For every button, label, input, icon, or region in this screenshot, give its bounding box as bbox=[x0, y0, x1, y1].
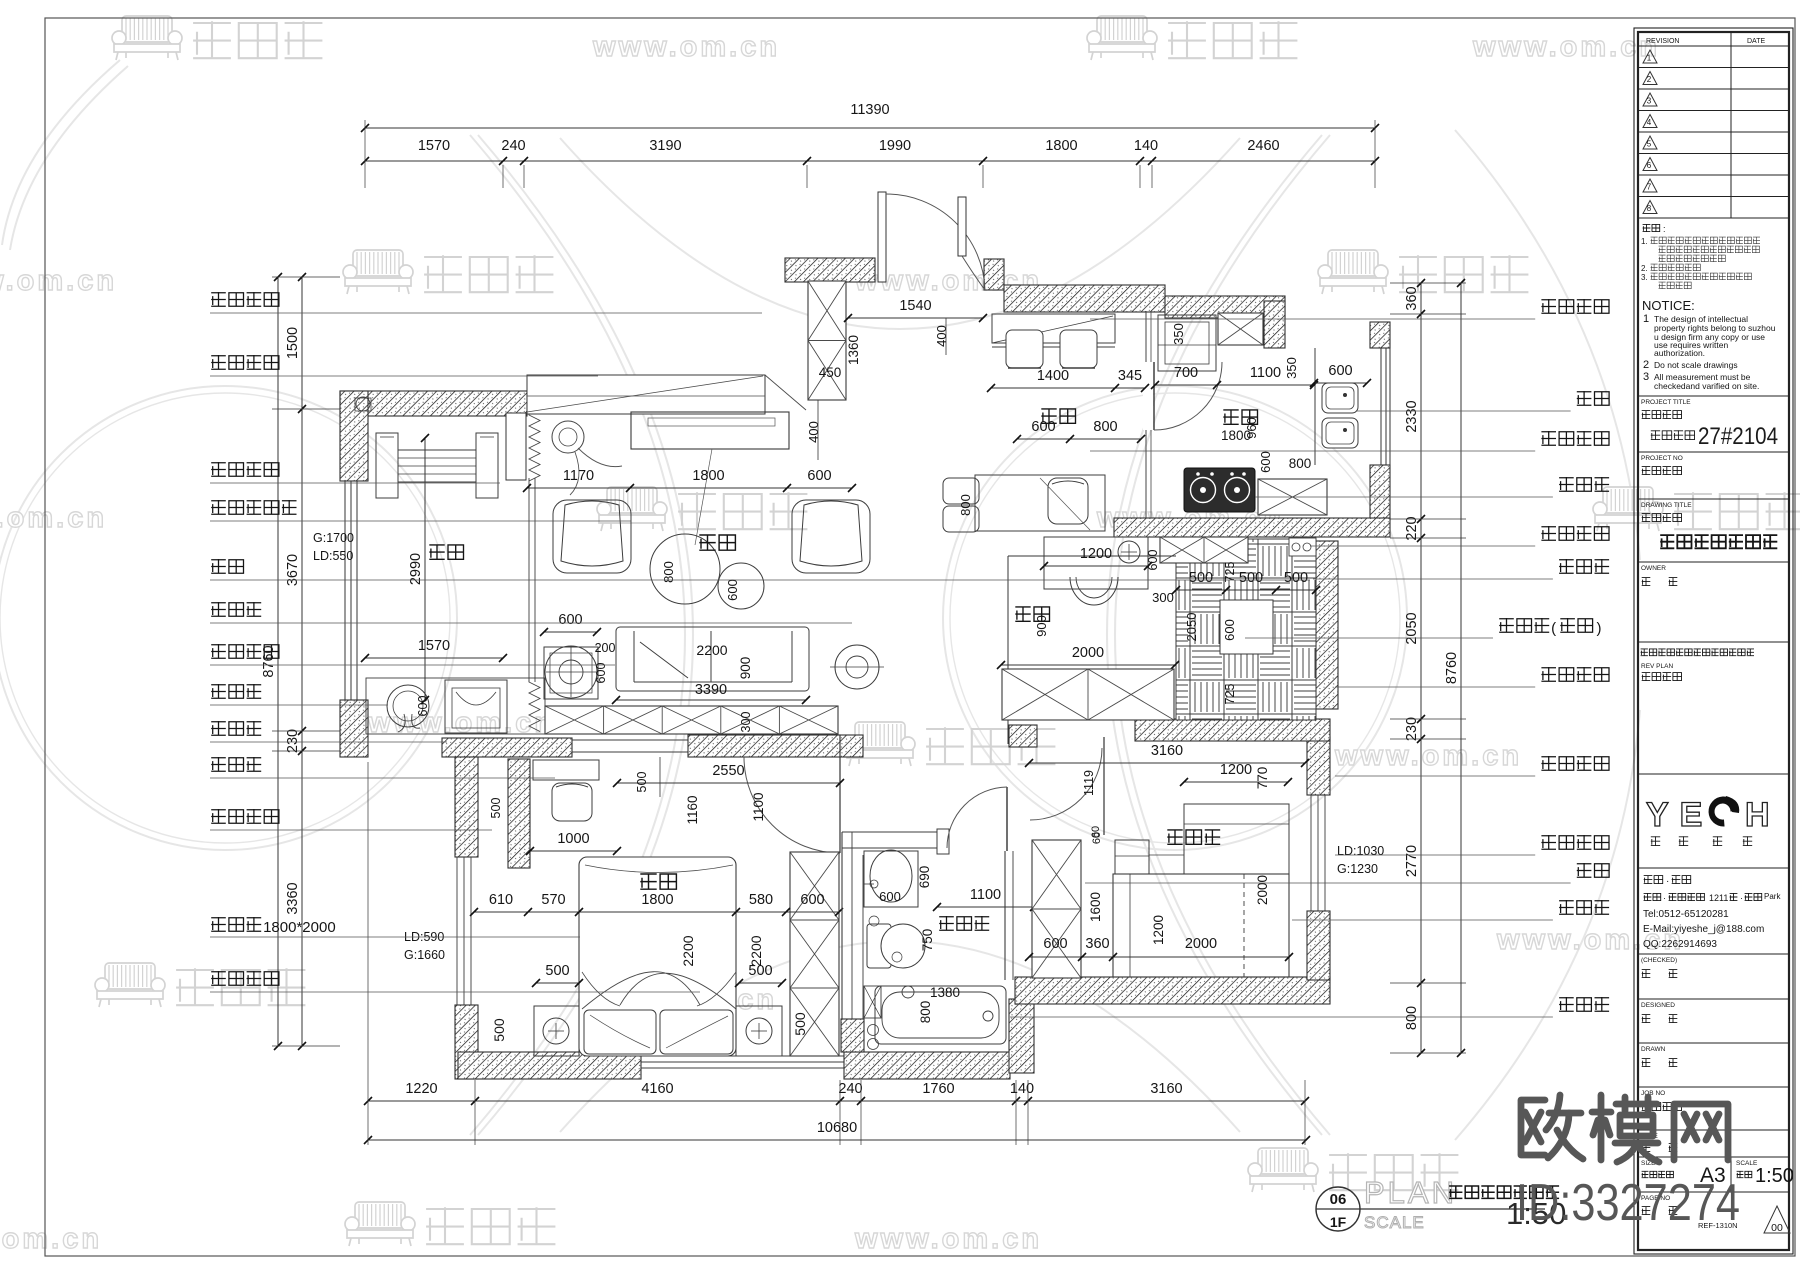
svg-text:SCALE: SCALE bbox=[1364, 1213, 1425, 1232]
svg-text:600: 600 bbox=[1222, 619, 1237, 641]
svg-text:2460: 2460 bbox=[1247, 138, 1279, 154]
svg-text:1F: 1F bbox=[1330, 1214, 1347, 1230]
svg-text:580: 580 bbox=[749, 892, 773, 908]
svg-text:3190: 3190 bbox=[649, 138, 681, 154]
svg-text:QQ:2262914693: QQ:2262914693 bbox=[1643, 939, 1717, 950]
svg-text:G:1700: G:1700 bbox=[313, 531, 354, 545]
svg-text:1119: 1119 bbox=[1082, 770, 1096, 796]
svg-text:REV PLAN: REV PLAN bbox=[1641, 663, 1673, 670]
svg-text:PROJECT NO: PROJECT NO bbox=[1641, 455, 1683, 462]
svg-text:1500: 1500 bbox=[285, 327, 301, 359]
svg-text:www.om.cn: www.om.cn bbox=[854, 1223, 1042, 1255]
svg-text:3160: 3160 bbox=[1150, 1081, 1182, 1097]
svg-text:JOB NO: JOB NO bbox=[1641, 1090, 1665, 1097]
svg-text:600: 600 bbox=[1328, 363, 1352, 379]
svg-text:725: 725 bbox=[1223, 562, 1237, 583]
svg-text:2: 2 bbox=[1643, 359, 1649, 371]
svg-text:G:1230: G:1230 bbox=[1337, 862, 1378, 876]
svg-text:YE: YE bbox=[1646, 796, 1713, 834]
svg-text:1000: 1000 bbox=[557, 831, 589, 847]
svg-text:27#2104: 27#2104 bbox=[1698, 423, 1778, 450]
svg-text:570: 570 bbox=[541, 892, 565, 908]
svg-text:600: 600 bbox=[1031, 419, 1055, 435]
svg-text:60: 60 bbox=[1090, 826, 1102, 838]
svg-text:725: 725 bbox=[1223, 684, 1237, 705]
svg-text:1100: 1100 bbox=[970, 887, 1001, 903]
svg-text:500: 500 bbox=[491, 1018, 507, 1042]
svg-text:2: 2 bbox=[1647, 75, 1652, 84]
svg-text:500: 500 bbox=[1284, 570, 1308, 586]
svg-text:www.om.cn: www.om.cn bbox=[1472, 31, 1660, 63]
svg-text:3670: 3670 bbox=[285, 554, 301, 586]
svg-text:600: 600 bbox=[807, 468, 831, 484]
svg-text:1100: 1100 bbox=[1250, 365, 1281, 381]
svg-text:220: 220 bbox=[1404, 516, 1420, 540]
svg-text:1400: 1400 bbox=[1037, 368, 1069, 384]
svg-text:200: 200 bbox=[595, 641, 616, 655]
svg-text:4: 4 bbox=[1647, 118, 1652, 127]
svg-text:140: 140 bbox=[1134, 138, 1158, 154]
svg-text:600: 600 bbox=[1043, 936, 1067, 952]
svg-text:2330: 2330 bbox=[1404, 400, 1420, 432]
svg-text:www.om.cn: www.om.cn bbox=[0, 265, 117, 297]
svg-text:00: 00 bbox=[1771, 1222, 1783, 1234]
svg-text::: : bbox=[1663, 224, 1666, 234]
svg-text:3390: 3390 bbox=[695, 682, 727, 698]
svg-text:1380: 1380 bbox=[930, 985, 960, 1000]
svg-text:06: 06 bbox=[1330, 1191, 1347, 1208]
svg-text:690: 690 bbox=[917, 866, 932, 889]
svg-text:500: 500 bbox=[748, 963, 772, 979]
svg-text:1360: 1360 bbox=[846, 335, 861, 365]
svg-text:1990: 1990 bbox=[879, 138, 911, 154]
svg-text:1800: 1800 bbox=[692, 468, 724, 484]
svg-text:LD:550: LD:550 bbox=[313, 549, 353, 563]
svg-text:360: 360 bbox=[1404, 286, 1420, 310]
svg-text:): ) bbox=[1597, 620, 1602, 637]
svg-text:·: · bbox=[1666, 876, 1669, 887]
svg-text:610: 610 bbox=[489, 892, 513, 908]
svg-text:2000: 2000 bbox=[1255, 875, 1270, 905]
svg-text:(CHECKED): (CHECKED) bbox=[1641, 957, 1677, 964]
svg-text:1160: 1160 bbox=[685, 795, 700, 824]
svg-text:500: 500 bbox=[545, 963, 569, 979]
svg-text:360: 360 bbox=[1085, 936, 1109, 952]
svg-text:PLAN: PLAN bbox=[1364, 1175, 1457, 1210]
svg-text:230: 230 bbox=[285, 729, 301, 753]
svg-text:REVISION: REVISION bbox=[1646, 38, 1679, 45]
svg-text:300: 300 bbox=[1152, 590, 1174, 605]
svg-text:600: 600 bbox=[594, 663, 608, 684]
svg-text:900: 900 bbox=[1034, 615, 1049, 637]
svg-text:E-Mail:yiyeshe_j@188.com: E-Mail:yiyeshe_j@188.com bbox=[1643, 924, 1764, 935]
svg-text:2770: 2770 bbox=[1404, 845, 1420, 877]
svg-text:7: 7 bbox=[1647, 183, 1652, 192]
svg-text:600: 600 bbox=[879, 889, 901, 904]
svg-text:240: 240 bbox=[838, 1081, 862, 1097]
svg-text:www.om.cn: www.om.cn bbox=[0, 1223, 102, 1255]
svg-text:10680: 10680 bbox=[817, 1120, 857, 1136]
svg-text:800: 800 bbox=[1289, 456, 1312, 471]
svg-text:1:50: 1:50 bbox=[1755, 1165, 1794, 1187]
svg-text:600: 600 bbox=[1258, 451, 1273, 473]
svg-text:1600: 1600 bbox=[1088, 892, 1103, 922]
svg-text:960: 960 bbox=[1244, 417, 1259, 439]
svg-text:500: 500 bbox=[635, 772, 649, 793]
svg-text:1: 1 bbox=[1647, 54, 1652, 63]
svg-text:1800: 1800 bbox=[1045, 138, 1077, 154]
svg-text:1.: 1. bbox=[1641, 237, 1648, 246]
svg-text:350: 350 bbox=[1171, 323, 1186, 345]
svg-text:600: 600 bbox=[558, 612, 582, 628]
svg-text:240: 240 bbox=[501, 138, 525, 154]
svg-text:8760: 8760 bbox=[261, 645, 277, 677]
svg-text:900: 900 bbox=[738, 657, 753, 680]
svg-text:500: 500 bbox=[489, 798, 503, 819]
svg-text:600: 600 bbox=[800, 892, 824, 908]
svg-text:500: 500 bbox=[1239, 570, 1263, 586]
svg-text:800: 800 bbox=[958, 494, 973, 516]
svg-text:H: H bbox=[1745, 796, 1770, 834]
svg-text:1570: 1570 bbox=[418, 638, 450, 654]
svg-text:2000: 2000 bbox=[1185, 936, 1217, 952]
svg-text:OWNER: OWNER bbox=[1641, 565, 1666, 572]
svg-text:Do not scale drawings: Do not scale drawings bbox=[1654, 360, 1738, 370]
svg-text:400: 400 bbox=[806, 421, 821, 443]
svg-text:1800*2000: 1800*2000 bbox=[263, 919, 336, 936]
svg-text:PROJECT TITLE: PROJECT TITLE bbox=[1641, 399, 1691, 406]
svg-text:2200: 2200 bbox=[748, 935, 764, 966]
svg-text:3.: 3. bbox=[1641, 273, 1648, 282]
svg-text:4160: 4160 bbox=[641, 1081, 673, 1097]
svg-text:2050: 2050 bbox=[1184, 613, 1199, 642]
svg-text:800: 800 bbox=[1093, 419, 1117, 435]
svg-text:DESIGNED: DESIGNED bbox=[1641, 1002, 1675, 1009]
svg-text:800: 800 bbox=[661, 561, 676, 583]
svg-text:1220: 1220 bbox=[405, 1081, 437, 1097]
svg-text:2050: 2050 bbox=[1404, 612, 1420, 644]
svg-text:3: 3 bbox=[1647, 97, 1652, 106]
svg-text:500: 500 bbox=[792, 1012, 808, 1036]
svg-text:345: 345 bbox=[1118, 368, 1142, 384]
svg-text:2550: 2550 bbox=[712, 763, 744, 779]
svg-text:G:1660: G:1660 bbox=[404, 948, 445, 962]
svg-text:300: 300 bbox=[739, 712, 753, 733]
svg-text:1200: 1200 bbox=[1080, 546, 1112, 562]
svg-text:3360: 3360 bbox=[285, 882, 301, 914]
svg-text:3160: 3160 bbox=[1151, 743, 1183, 759]
svg-text:DRAWING TITLE: DRAWING TITLE bbox=[1641, 502, 1692, 509]
svg-text:DATE: DATE bbox=[1747, 38, 1765, 45]
svg-text:1540: 1540 bbox=[899, 298, 931, 314]
svg-text:1200: 1200 bbox=[1220, 762, 1252, 778]
svg-text:Tel:0512-65120281: Tel:0512-65120281 bbox=[1643, 909, 1729, 920]
svg-text:DRAWN: DRAWN bbox=[1641, 1046, 1666, 1053]
svg-text:700: 700 bbox=[1174, 365, 1198, 381]
svg-text:350: 350 bbox=[1284, 357, 1299, 379]
svg-text:1211: 1211 bbox=[1709, 893, 1728, 903]
svg-text:450: 450 bbox=[819, 365, 842, 380]
svg-text:800: 800 bbox=[1404, 1006, 1420, 1030]
svg-text:1800: 1800 bbox=[641, 892, 673, 908]
svg-text:500: 500 bbox=[1189, 570, 1213, 586]
svg-text:8760: 8760 bbox=[1444, 652, 1460, 684]
svg-text:11390: 11390 bbox=[850, 102, 889, 118]
svg-text:LD:1030: LD:1030 bbox=[1337, 844, 1384, 858]
svg-text:800: 800 bbox=[918, 1001, 933, 1024]
svg-text:8: 8 bbox=[1647, 204, 1652, 213]
svg-text:1: 1 bbox=[1643, 313, 1649, 325]
svg-text:770: 770 bbox=[1255, 767, 1270, 790]
svg-text:400: 400 bbox=[934, 325, 949, 347]
svg-text:1100: 1100 bbox=[751, 792, 766, 821]
svg-text:6: 6 bbox=[1647, 161, 1652, 170]
svg-text:1760: 1760 bbox=[922, 1081, 954, 1097]
svg-text:authorization.: authorization. bbox=[1654, 348, 1705, 358]
svg-text:NOTICE:: NOTICE: bbox=[1642, 298, 1695, 313]
svg-text:2.: 2. bbox=[1641, 264, 1648, 273]
svg-text:ID:3327274: ID:3327274 bbox=[1516, 1174, 1740, 1232]
svg-text:·: · bbox=[1663, 893, 1666, 903]
svg-text:www.om.cn: www.om.cn bbox=[592, 31, 780, 63]
svg-text:1170: 1170 bbox=[563, 468, 594, 484]
svg-text:230: 230 bbox=[1404, 717, 1420, 741]
svg-text:750: 750 bbox=[920, 929, 935, 952]
svg-text:Park: Park bbox=[1764, 892, 1781, 901]
svg-text:2200: 2200 bbox=[680, 935, 696, 966]
svg-text:checkedand varified on site.: checkedand varified on site. bbox=[1654, 381, 1759, 391]
svg-text:www.om.cn: www.om.cn bbox=[0, 502, 107, 534]
svg-text:600: 600 bbox=[725, 579, 740, 601]
svg-text:1570: 1570 bbox=[418, 138, 450, 154]
svg-text:140: 140 bbox=[1010, 1081, 1034, 1097]
svg-text:600: 600 bbox=[416, 696, 430, 717]
svg-text:(: ( bbox=[1551, 620, 1556, 637]
svg-text:5: 5 bbox=[1647, 140, 1652, 149]
svg-text:1200: 1200 bbox=[1151, 915, 1166, 945]
svg-text:3: 3 bbox=[1643, 371, 1649, 383]
svg-text:2200: 2200 bbox=[696, 642, 727, 658]
svg-text:·: · bbox=[1740, 893, 1743, 903]
svg-text:2000: 2000 bbox=[1072, 645, 1104, 661]
svg-text:www.om.cn: www.om.cn bbox=[1334, 740, 1522, 772]
